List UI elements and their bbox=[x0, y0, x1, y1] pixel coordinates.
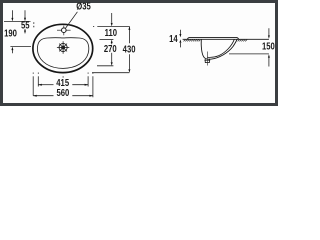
svg-text:560: 560 bbox=[56, 87, 69, 98]
svg-text:270: 270 bbox=[104, 43, 117, 54]
svg-text:Ø35: Ø35 bbox=[76, 0, 91, 11]
svg-text:430: 430 bbox=[123, 43, 136, 54]
svg-text:110: 110 bbox=[105, 27, 117, 38]
svg-text:150: 150 bbox=[262, 41, 275, 52]
svg-text:190: 190 bbox=[4, 27, 17, 38]
svg-text:55: 55 bbox=[21, 19, 30, 30]
svg-text:14: 14 bbox=[169, 33, 178, 44]
